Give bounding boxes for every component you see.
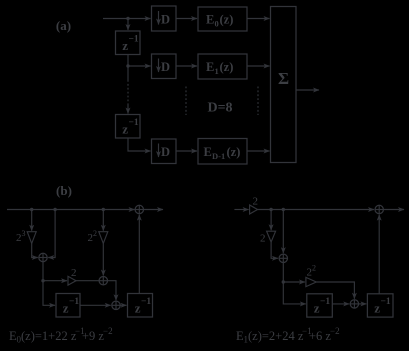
svg-text:Σ: Σ: [278, 69, 289, 88]
wire: input line (b-right) into multiplier: [234, 209, 248, 211]
svg-text:(a): (a): [56, 18, 71, 33]
wire: adder5 output down: [282, 263, 284, 283]
svg-text:E: E: [206, 13, 214, 27]
wire: input line (b-left): [7, 209, 135, 211]
wire: delay1 to row-2 junction: [127, 55, 129, 67]
wire: multiplier output along top to adder7: [258, 209, 374, 211]
svg-text:+6 z: +6 z: [309, 329, 331, 343]
formula E1(z): [236, 326, 340, 345]
svg-text:2: 2: [93, 229, 97, 238]
svg-text:D: D: [161, 60, 170, 74]
wire: junction down then right into delay box b3: [283, 282, 306, 304]
adder 5: [279, 254, 287, 262]
formula E0(z): [9, 326, 113, 345]
delay z^-1 box 1: [116, 31, 141, 55]
wire: delay2 down and right to downsampler 3: [128, 138, 151, 151]
svg-text:3: 3: [22, 229, 26, 238]
svg-text:(z): (z): [220, 60, 234, 74]
delay z^-1 box b2: [128, 294, 153, 318]
svg-text:2: 2: [253, 196, 259, 208]
svg-text:z: z: [122, 38, 128, 53]
svg-text:D=8: D=8: [207, 101, 232, 116]
wire: multiplier 2^3 output to adder1: [32, 243, 38, 257]
svg-text:E: E: [204, 145, 212, 159]
svg-text:2: 2: [71, 267, 77, 279]
node: tap A: [269, 208, 272, 211]
svg-text:(z)=1+22 z: (z)=1+22 z: [21, 329, 77, 343]
polyphase filter ED-1(z) box: [198, 139, 247, 165]
wire: downsampler1 to E0: [176, 18, 197, 20]
wire: adder1 output down: [42, 262, 44, 281]
node: tap 3: [102, 208, 105, 211]
svg-text:D-1: D-1: [212, 151, 225, 161]
downsampler box 1: [152, 6, 177, 31]
wire: tap3 down to multiplier 2^2: [102, 210, 104, 231]
wire: multiplier 2^2 output right then down into adder6: [316, 282, 354, 299]
svg-text:−1: −1: [320, 297, 330, 307]
wire: summer output: [296, 89, 319, 91]
wire: delay b1 output into adder3: [80, 304, 111, 306]
multiplier triangle 2^3: [27, 232, 36, 244]
svg-text:D: D: [161, 145, 170, 159]
adder 3: [112, 301, 120, 309]
multiplier triangle 2^2: [99, 232, 108, 244]
multiplier triangle 2^2 (b-right): [306, 277, 316, 286]
wire: delay b4 up into top adder7: [378, 215, 380, 294]
svg-text:(b): (b): [56, 183, 72, 198]
svg-text:(z)=2+24 z: (z)=2+24 z: [248, 329, 304, 343]
svg-text:z: z: [122, 122, 128, 137]
svg-text:−1: −1: [141, 297, 151, 307]
svg-text:−2: −2: [103, 326, 113, 336]
adder 2: [99, 277, 107, 285]
wire: downsampler2 to E1: [176, 65, 197, 67]
node: row-2 junction: [126, 64, 129, 67]
node: input tap junction: [126, 17, 129, 20]
wire: junction to downsampler 2: [128, 65, 151, 67]
delay z^-1 box b4: [367, 294, 393, 317]
polyphase filter E0(z) box: [198, 7, 247, 31]
svg-text:z: z: [63, 301, 69, 316]
wire: adder2 output right then down into adder3: [108, 281, 117, 301]
svg-text:(z): (z): [227, 145, 241, 159]
svg-text:E: E: [206, 60, 214, 74]
wire: multiplier output down then right into adder5: [271, 242, 278, 258]
delay z^-1 box 2: [116, 115, 141, 139]
wire: tapA down to multiplier 2: [270, 210, 272, 231]
wire: E0 to summer: [247, 18, 270, 20]
wire: input line row 1: [103, 18, 151, 20]
wire: vertical continuation below junction: [127, 66, 129, 80]
wire: delay b3 output into adder6: [332, 303, 349, 305]
delay z^-1 box b3: [307, 294, 333, 317]
svg-text:1: 1: [215, 66, 219, 76]
node: tap B: [282, 208, 285, 211]
svg-text:−1: −1: [129, 118, 139, 128]
wire: downsampler3 to ED-1: [176, 150, 197, 152]
svg-text:−1: −1: [69, 297, 79, 307]
multiplier triangle 2 (b-right input): [250, 205, 258, 214]
svg-text:(z): (z): [220, 13, 234, 27]
wire: tap1 down to multiplier 2^3: [31, 210, 33, 231]
wire: junction down then right into delay box b1: [43, 281, 55, 306]
wire: adder6 output into delay box b4: [359, 303, 367, 305]
wire: adder3 output into delay box b2: [120, 304, 126, 306]
wire: dashed vertical continuation: [127, 80, 129, 104]
dashed continuation column before summer: [257, 87, 259, 116]
adder 6: [350, 300, 358, 308]
wire: junction right to multiplier 2: [43, 280, 67, 282]
svg-text:−1: −1: [129, 35, 139, 45]
svg-text:2: 2: [260, 233, 266, 245]
wire: tapB down into adder5 top: [282, 210, 284, 254]
wire: tap down into first delay: [127, 19, 129, 31]
wire: output (b-left): [144, 209, 164, 211]
downsampler box 3: [152, 139, 177, 164]
node: tap 2: [53, 208, 56, 211]
svg-text:−2: −2: [330, 326, 340, 336]
svg-text:−1: −1: [381, 297, 391, 307]
wire: junction right to multiplier 2^2: [283, 281, 305, 283]
node: junction below adder5: [282, 280, 285, 283]
svg-text:z: z: [314, 301, 320, 316]
dashed continuation column between downsamplers and E boxes: [185, 87, 187, 116]
svg-text:z: z: [374, 301, 380, 316]
delay z^-1 box b1: [56, 294, 80, 318]
adder 4 (top, b-left): [135, 205, 143, 213]
wire: ED-1 to summer: [247, 150, 270, 152]
wire: E1 to summer: [247, 65, 270, 67]
adder 7 (top, b-right): [375, 205, 383, 213]
wire: multiplier 2 output to adder2: [76, 280, 99, 282]
wire: output (b-right): [383, 209, 404, 211]
wire: arrow into second delay: [127, 104, 129, 114]
svg-text:0: 0: [215, 19, 219, 29]
svg-text:z: z: [135, 301, 141, 316]
wire: delay b2 up into top adder4: [138, 215, 140, 294]
wire: multiplier 2^2 output down into adder2: [102, 243, 104, 275]
svg-text:2: 2: [312, 264, 316, 273]
multiplier triangle 2 (b-left): [68, 276, 76, 285]
wire: tap2 down into adder1 right: [48, 210, 55, 258]
svg-text:D: D: [161, 13, 170, 27]
node: tap 1: [30, 208, 33, 211]
polyphase filter E1(z) box: [198, 54, 247, 79]
summer box: [271, 7, 297, 163]
svg-text:+9 z: +9 z: [82, 329, 104, 343]
adder 1: [39, 253, 47, 261]
downsampler box 2: [152, 54, 177, 79]
node: branch junction below adder1: [41, 279, 44, 282]
multiplier triangle 2 (b-right vertical): [267, 231, 276, 242]
